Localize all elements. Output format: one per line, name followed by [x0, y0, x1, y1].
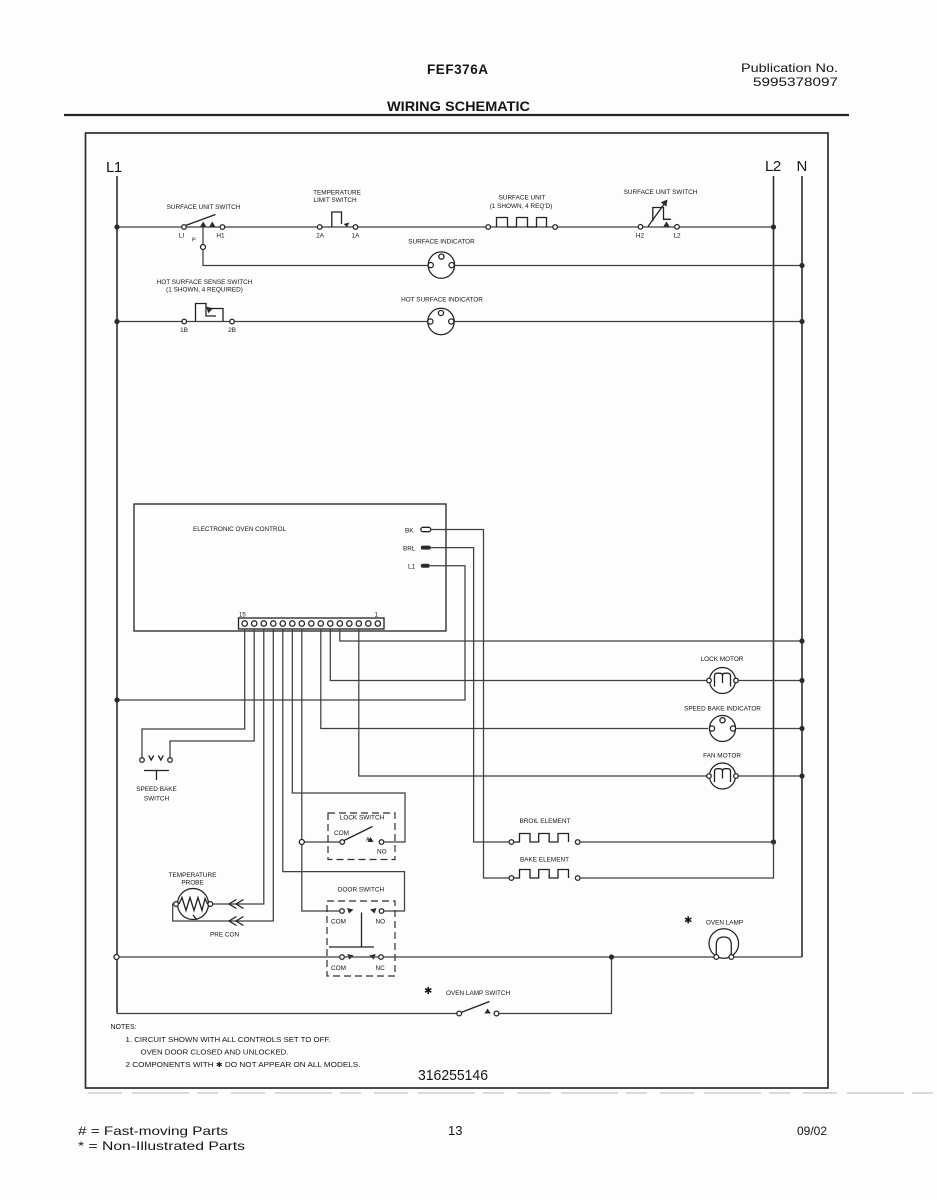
- wire: oven lamp switch branch at y=1013.5: [117, 957, 612, 1014]
- wire: bottom run L1 to N at y=957: [119, 956, 802, 958]
- svg-text:COM: COM: [334, 830, 349, 837]
- svg-text:NOTES:: NOTES:: [111, 1024, 137, 1031]
- wire: row2 L1 to N at y=321.5: [117, 321, 802, 323]
- junction: L1 row2: [114, 319, 119, 324]
- wire: tap to lock switch COM: [302, 841, 340, 843]
- wire: terminal 15 to speed bake switch left: [142, 629, 245, 758]
- svg-text:OVEN LAMP: OVEN LAMP: [706, 920, 743, 927]
- svg-text:✱: ✱: [684, 916, 692, 927]
- svg-text:P: P: [192, 238, 196, 244]
- svg-text:COM: COM: [331, 965, 346, 972]
- wire: L1 bus vertical: [116, 176, 118, 1014]
- svg-text:DOOR SWITCH: DOOR SWITCH: [338, 887, 385, 894]
- connector: L1 output: [408, 564, 430, 571]
- junction: L1 row1: [114, 224, 119, 229]
- svg-text:5995378097: 5995378097: [753, 75, 838, 89]
- svg-text:LOCK SWITCH: LOCK SWITCH: [340, 815, 385, 822]
- svg-text:316255146: 316255146: [418, 1067, 488, 1084]
- svg-text:LI: LI: [179, 233, 185, 240]
- switch: door switch (dashed box): [327, 887, 395, 977]
- wire: BK to bake element: [431, 530, 509, 879]
- svg-text:ELECTRONIC OVEN CONTROL: ELECTRONIC OVEN CONTROL: [193, 526, 286, 533]
- resistor: bake element: [509, 857, 580, 881]
- svg-text:2B: 2B: [228, 327, 236, 334]
- junction: L1 bus EOC feed: [114, 697, 119, 702]
- junction: L2 bus at broil element: [771, 839, 776, 844]
- svg-text:(1 SHOWN, 4 REQ'D): (1 SHOWN, 4 REQ'D): [490, 203, 553, 210]
- connector: L1 tap at bottom run: [114, 955, 119, 960]
- switch: lock switch (dashed box): [328, 813, 395, 860]
- svg-text:LIMIT SWITCH: LIMIT SWITCH: [313, 197, 357, 204]
- switch: oven lamp switch: [424, 986, 511, 1016]
- wire: row1 L1 to L2 at y=227: [117, 226, 774, 228]
- svg-text:Publication No.: Publication No.: [741, 61, 838, 75]
- svg-text:A: A: [366, 837, 370, 843]
- wire: broil element to L2 bus: [580, 841, 774, 843]
- wire: terminal 6 to lock motor: [330, 629, 708, 681]
- wire: EOC L1 feed to L1 bus: [117, 566, 465, 700]
- svg-text:PROBE: PROBE: [181, 880, 203, 887]
- connector: P terminal: [201, 245, 206, 250]
- connector: BK output: [405, 527, 431, 534]
- wire: L2 bus vertical: [773, 176, 775, 842]
- svg-text:NO: NO: [377, 849, 387, 856]
- svg-text:SURFACE UNIT SWITCH: SURFACE UNIT SWITCH: [624, 189, 698, 196]
- svg-text:OVEN LAMP SWITCH: OVEN LAMP SWITCH: [446, 990, 511, 997]
- svg-text:1B: 1B: [180, 327, 188, 334]
- junction: row1 at L2 bus: [771, 224, 776, 229]
- svg-text:HOT SURFACE INDICATOR: HOT SURFACE INDICATOR: [401, 297, 483, 304]
- svg-text:2A: 2A: [316, 233, 325, 240]
- junction: lamp switch branch at bottom run: [609, 954, 614, 959]
- junction: N bus at y=641: [799, 638, 804, 643]
- switch: surface unit switch (right) H2/L2: [624, 189, 698, 240]
- svg-text:✱: ✱: [424, 986, 432, 997]
- svg-text:BROIL ELEMENT: BROIL ELEMENT: [520, 818, 571, 825]
- svg-text:BRL: BRL: [403, 546, 416, 553]
- svg-text:SURFACE INDICATOR: SURFACE INDICATOR: [408, 239, 475, 246]
- wire: terminal 5 to N bus: [340, 629, 802, 641]
- svg-text:L1: L1: [106, 159, 122, 176]
- motor: fan motor: [703, 753, 741, 790]
- svg-text:BAKE ELEMENT: BAKE ELEMENT: [520, 857, 569, 864]
- svg-text:OVEN DOOR CLOSED AND UNLOCKED.: OVEN DOOR CLOSED AND UNLOCKED.: [141, 1049, 289, 1056]
- connector: junction on T9 wire at lock switch COM: [299, 840, 304, 845]
- switch: speed bake switch: [136, 756, 177, 803]
- wire: terminal 11 to door switch NO: [283, 629, 405, 911]
- wire: terminal 3 to fan motor: [359, 629, 708, 776]
- motor: lock motor: [701, 656, 744, 694]
- svg-text:WIRING SCHEMATIC: WIRING SCHEMATIC: [387, 98, 530, 114]
- wire: terminal 13 to temperature probe right (via y=904): [213, 629, 264, 904]
- svg-text:2 COMPONENTS WITH ✱ DO NOT: 2 COMPONENTS WITH ✱ DO NOT APPEAR ON ALL…: [126, 1061, 361, 1069]
- svg-text:SPEED BAKE: SPEED BAKE: [136, 786, 177, 793]
- resistor: surface unit element: [486, 195, 557, 230]
- lamp: surface indicator: [408, 239, 475, 279]
- switch: surface unit switch (left) LI/P/H1: [167, 204, 241, 244]
- svg-text:FAN MOTOR: FAN MOTOR: [703, 753, 741, 760]
- svg-text:13: 13: [448, 1123, 462, 1138]
- svg-text:H2: H2: [636, 233, 645, 240]
- svg-text:L2: L2: [673, 233, 681, 240]
- junction: P row at N bus: [799, 263, 804, 268]
- resistor: broil element: [509, 818, 580, 844]
- svg-text:COM: COM: [331, 919, 346, 926]
- svg-text:H1: H1: [216, 233, 225, 240]
- svg-text:BK: BK: [405, 528, 414, 535]
- svg-text:1A: 1A: [352, 233, 361, 240]
- svg-text:09/02: 09/02: [797, 1124, 827, 1138]
- wire: BRL to broil element: [431, 548, 509, 842]
- connector: chevrons on probe right wire: [229, 900, 244, 909]
- wire: P row to surface indicator and N at y=265.5: [203, 250, 802, 266]
- IC: electronic oven control box: [134, 504, 446, 631]
- svg-text:TEMPERATURE: TEMPERATURE: [169, 872, 217, 879]
- wire: lock motor to N: [735, 680, 802, 682]
- resistor: temperature probe: [169, 872, 240, 939]
- wire: terminal 12 to temperature probe left (via y=921): [173, 629, 274, 921]
- junction: row2 at N bus: [799, 319, 804, 324]
- svg-text:TEMPERATURE: TEMPERATURE: [313, 190, 361, 197]
- switch: temperature limit switch 2A/1A: [313, 190, 361, 240]
- svg-text:SURFACE UNIT SWITCH: SURFACE UNIT SWITCH: [167, 204, 241, 211]
- wire: terminal 14 to speed bake switch right: [170, 629, 254, 758]
- lamp: speed bake indicator: [684, 706, 761, 742]
- lamp: oven lamp: [684, 916, 743, 960]
- svg-text:SURFACE UNIT: SURFACE UNIT: [499, 195, 546, 202]
- connector: BRL output: [403, 546, 431, 553]
- wire: terminal 10 to lock switch NO side: [292, 629, 405, 842]
- junction: N bus lock motor: [799, 678, 804, 683]
- svg-text:FEF376A: FEF376A: [427, 62, 488, 77]
- wire: terminal 7 to speed bake indicator: [321, 629, 708, 729]
- svg-text:N: N: [797, 158, 808, 175]
- svg-text:SWITCH: SWITCH: [144, 796, 170, 803]
- svg-text:1. CIRCUIT SHOWN WITH ALL CON: 1. CIRCUIT SHOWN WITH ALL CONTROLS SET T…: [126, 1037, 331, 1044]
- connector: EOC terminal strip: [239, 613, 385, 630]
- wire: bake element to L2 bus corner: [580, 842, 774, 878]
- svg-text:# = Fast-moving Parts: # = Fast-moving Parts: [78, 1124, 228, 1138]
- svg-text:NO: NO: [376, 919, 386, 926]
- svg-text:HOT SURFACE SENSE SWITCH: HOT SURFACE SENSE SWITCH: [157, 279, 253, 286]
- wire: fan motor to N: [735, 775, 802, 777]
- svg-text:PRE CON: PRE CON: [210, 932, 240, 939]
- lamp: hot surface indicator: [401, 297, 483, 335]
- title underline rule: [64, 114, 849, 116]
- connector: chevrons on probe left wire: [229, 917, 244, 926]
- svg-text:(1 SHOWN, 4 REQUIRED): (1 SHOWN, 4 REQUIRED): [166, 287, 243, 294]
- wire: N bus vertical: [801, 176, 803, 957]
- junction: N bus speed bake indicator: [799, 726, 804, 731]
- junction: N bus fan motor: [799, 773, 804, 778]
- svg-text:NC: NC: [376, 965, 386, 972]
- svg-text:* = Non-Illustrated Parts: * = Non-Illustrated Parts: [78, 1139, 245, 1153]
- svg-text:SPEED BAKE INDICATOR: SPEED BAKE INDICATOR: [684, 706, 761, 713]
- svg-text:L2: L2: [765, 158, 781, 175]
- svg-text:LOCK MOTOR: LOCK MOTOR: [701, 656, 744, 663]
- wire: speed bake indicator to N: [735, 728, 802, 730]
- switch: hot surface sense switch 1B/2B: [157, 279, 253, 334]
- wire: P drop from row1: [202, 227, 204, 244]
- wire: terminal 9 down to door switch COM: [302, 629, 340, 911]
- svg-text:L1: L1: [408, 564, 416, 571]
